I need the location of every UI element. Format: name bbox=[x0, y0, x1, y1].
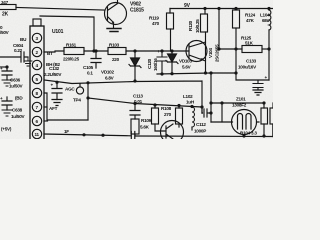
svg-text:347: 347 bbox=[1, 0, 9, 5]
wire C604 bbox=[0, 56, 20, 58]
svg-text:R109: R109 bbox=[141, 118, 152, 123]
transistor V104 bbox=[186, 41, 207, 62]
pin 8 bbox=[32, 88, 41, 97]
svg-text:AFT: AFT bbox=[49, 106, 58, 111]
ground C638 bbox=[2, 110, 12, 116]
svg-text:C1815: C1815 bbox=[130, 8, 144, 14]
capacitor C120 bbox=[160, 49, 163, 52]
resistor R119 bbox=[167, 13, 174, 29]
node rail at x88 bbox=[86, 81, 89, 84]
bottom rail bbox=[44, 134, 273, 137]
svg-text:VD102: VD102 bbox=[101, 70, 114, 75]
svg-text:100u/16V: 100u/16V bbox=[238, 65, 257, 70]
wire C636 bbox=[0, 66, 7, 68]
svg-text:U101: U101 bbox=[52, 29, 64, 35]
svg-text:C132: C132 bbox=[49, 66, 60, 71]
svg-text:6.8V: 6.8V bbox=[105, 76, 115, 81]
svg-text:1uH: 1uH bbox=[186, 100, 195, 105]
svg-text:Z101: Z101 bbox=[236, 97, 246, 102]
wire down to C133 bbox=[235, 28, 237, 73]
wire pin8 down around AFT bbox=[44, 93, 88, 120]
ground rail B from pin5 bbox=[44, 80, 202, 113]
node R108 top bbox=[153, 103, 156, 106]
svg-text:68u: 68u bbox=[262, 18, 270, 23]
capacitor C112 bbox=[202, 109, 211, 117]
tuner connector tab bbox=[33, 19, 41, 26]
svg-text:1F: 1F bbox=[64, 129, 69, 134]
svg-text:0.22: 0.22 bbox=[14, 48, 23, 53]
svg-text:9V: 9V bbox=[184, 3, 191, 9]
pin 2 bbox=[32, 47, 41, 56]
transistor V103 bbox=[161, 121, 184, 144]
svg-text:0.1: 0.1 bbox=[87, 71, 93, 76]
svg-text:270: 270 bbox=[164, 112, 172, 117]
svg-text:47K: 47K bbox=[246, 18, 255, 23]
inductor L104 bbox=[268, 9, 270, 81]
svg-text:220: 220 bbox=[112, 57, 120, 62]
wire pin7 stub bbox=[44, 106, 47, 108]
ground C636 bbox=[2, 80, 12, 86]
pin 6 bbox=[32, 116, 41, 125]
svg-text:1u/50V: 1u/50V bbox=[11, 114, 25, 119]
wire R161 to R103 bbox=[84, 50, 108, 52]
svg-text:51K: 51K bbox=[245, 41, 254, 46]
rail A zener common bbox=[157, 73, 236, 74]
wire pin2 to R161 bbox=[44, 51, 64, 52]
capacitor C133 bbox=[253, 80, 263, 90]
transistor V902 bbox=[105, 3, 127, 25]
capacitor C105 bbox=[91, 51, 101, 68]
svg-text:C133: C133 bbox=[246, 59, 257, 64]
svg-text:C638: C638 bbox=[12, 108, 23, 113]
test point TP4 bbox=[76, 87, 83, 94]
wire pin6 stub bbox=[44, 120, 48, 122]
capacitor C638 bbox=[2, 97, 12, 110]
svg-text:L102: L102 bbox=[183, 94, 193, 99]
svg-text:1000P: 1000P bbox=[194, 129, 206, 134]
svg-text:BT: BT bbox=[47, 51, 53, 56]
svg-text:10/0.25: 10/0.25 bbox=[195, 19, 200, 33]
resistor R108 bbox=[152, 108, 159, 124]
resistor R120 bbox=[201, 14, 208, 32]
svg-text:TP4: TP4 bbox=[73, 98, 81, 103]
svg-text:VD103: VD103 bbox=[179, 59, 192, 64]
zener VD103 bbox=[170, 49, 173, 52]
svg-text:2SC2655: 2SC2655 bbox=[215, 44, 220, 62]
resistor R103 bbox=[108, 48, 126, 55]
inductor L102 bbox=[191, 106, 193, 109]
resistor R161 bbox=[64, 48, 84, 55]
pin 3 bbox=[32, 33, 41, 42]
wire collector node to R125 bbox=[219, 9, 242, 50]
ground C604 bbox=[24, 57, 32, 66]
ceramic filter Z101 bbox=[232, 110, 257, 135]
capacitor C604 bbox=[21, 52, 28, 62]
svg-text:220/0.25: 220/0.25 bbox=[63, 57, 80, 62]
pin 7 bbox=[32, 102, 41, 111]
wire R347 output bbox=[16, 8, 104, 11]
svg-text:11: 11 bbox=[35, 132, 40, 137]
wire to C133 bbox=[236, 73, 269, 80]
resistor R124 bbox=[233, 10, 240, 28]
node R124 bottom bbox=[234, 47, 237, 50]
svg-text:C120: C120 bbox=[147, 58, 152, 69]
resistor R109 bbox=[131, 119, 139, 134]
ground V902 emitter bbox=[107, 29, 121, 32]
svg-text:C105: C105 bbox=[83, 65, 94, 70]
svg-text:(BD: (BD bbox=[15, 96, 23, 101]
svg-text:1u/50V: 1u/50V bbox=[9, 84, 23, 89]
wire tab to main junction bbox=[40, 16, 94, 51]
wire C112 down to Z101 bbox=[211, 121, 233, 123]
wire R103 to V104 base bbox=[126, 50, 189, 52]
IF signal wire bbox=[88, 98, 202, 113]
svg-text:/50V: /50V bbox=[0, 30, 10, 35]
ground C132 bbox=[52, 100, 62, 106]
svg-text:C636: C636 bbox=[10, 78, 21, 83]
svg-text:R104 3.3: R104 3.3 bbox=[240, 131, 257, 136]
svg-text:R120: R120 bbox=[188, 20, 193, 31]
svg-text:5.6V: 5.6V bbox=[182, 65, 192, 70]
svg-text:BU: BU bbox=[20, 37, 27, 42]
zener VD102 bbox=[133, 49, 136, 52]
resistor R104 bbox=[261, 108, 268, 124]
svg-text:0.01: 0.01 bbox=[134, 99, 143, 104]
pin 11 bbox=[32, 129, 41, 138]
node R104 top bbox=[262, 101, 265, 104]
svg-text:R119: R119 bbox=[149, 16, 159, 21]
svg-text:V104: V104 bbox=[208, 48, 213, 58]
resistor R125 bbox=[242, 46, 262, 53]
wire C112 up and right bbox=[211, 73, 262, 122]
svg-text:2.2U/50V: 2.2U/50V bbox=[44, 72, 62, 77]
pin 4 bbox=[32, 60, 41, 69]
svg-text:(+5V): (+5V) bbox=[1, 127, 12, 132]
capacitor C132 bbox=[52, 82, 62, 100]
svg-text:2K: 2K bbox=[2, 12, 9, 18]
svg-text:C112: C112 bbox=[196, 122, 206, 127]
resistor R110 bbox=[176, 108, 183, 124]
svg-text:L104: L104 bbox=[260, 13, 270, 18]
filter prongs bbox=[238, 114, 252, 130]
resistor at right edge bbox=[270, 108, 276, 124]
svg-text:R161: R161 bbox=[66, 43, 77, 48]
ground C133 bbox=[253, 90, 263, 95]
svg-text:AGC: AGC bbox=[65, 87, 75, 92]
svg-text:C113: C113 bbox=[133, 94, 143, 99]
series capacitor in rail bbox=[131, 132, 135, 141]
node main wire at x94 bbox=[92, 49, 95, 52]
svg-text:1308F2: 1308F2 bbox=[232, 103, 247, 108]
resistor R347 (cut at left edge) bbox=[0, 5, 16, 10]
9V rail bbox=[170, 8, 273, 10]
capacitor C636 bbox=[2, 67, 12, 80]
tuner connector U101 body bbox=[30, 26, 44, 141]
svg-text:R124: R124 bbox=[245, 13, 256, 18]
svg-text:5.6K: 5.6K bbox=[140, 125, 150, 130]
svg-text:160/16: 160/16 bbox=[153, 58, 158, 71]
svg-text:R108: R108 bbox=[161, 106, 172, 111]
wire rail corner down to IF line bbox=[87, 83, 89, 120]
node C113 bbox=[133, 102, 136, 105]
svg-text:470: 470 bbox=[152, 21, 160, 26]
capacitor C113 bbox=[130, 104, 140, 120]
pin 5 bbox=[32, 74, 41, 83]
svg-text:R103: R103 bbox=[109, 43, 120, 48]
